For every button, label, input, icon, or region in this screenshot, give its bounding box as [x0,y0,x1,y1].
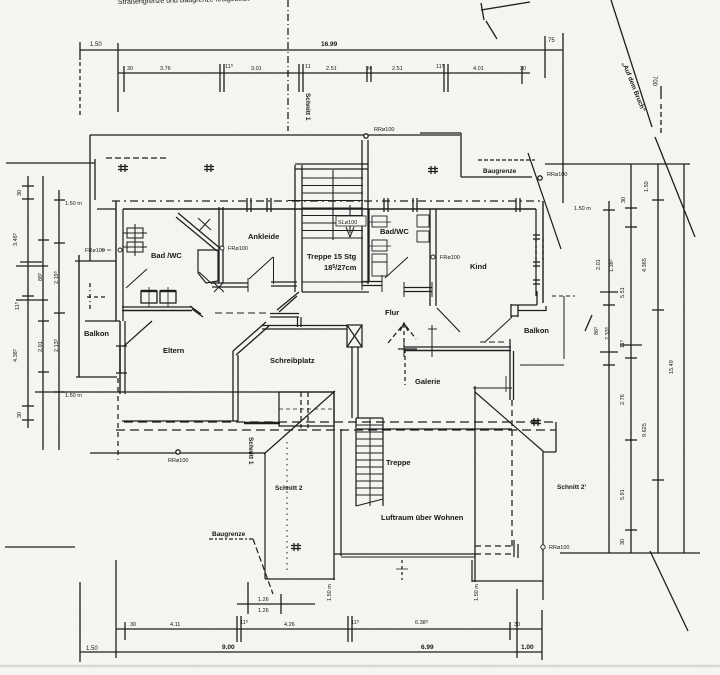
1.26 tick a [247,582,249,614]
window badwc2 [383,198,385,212]
rail3 ticks [652,199,664,201]
badwc2 right fixtures [417,215,429,227]
stair top wall [295,163,368,165]
svg-text:1.50 m: 1.50 m [327,584,333,601]
svg-text:1.26: 1.26 [258,608,269,614]
svg-text:30: 30 [514,622,520,628]
svg-text:FRø100: FRø100 [440,255,460,261]
tick 30 right [521,66,523,84]
desk rect [279,392,334,426]
svg-text:1.50 m: 1.50 m [574,206,591,212]
left wall lower outer [119,321,121,394]
FR circle ankleide [220,246,224,250]
eltern bottom window bar [244,422,280,425]
dashed segment near top left [106,157,166,159]
chain1 tick 30 [124,622,126,640]
svg-text:30: 30 [130,622,136,628]
svg-text:75: 75 [548,38,555,44]
svg-text:1.50: 1.50 [644,181,650,192]
lower stair right rail [382,418,384,506]
left horizontal stub y261 [75,260,116,262]
stair lower landing line [302,291,369,293]
ankleide bottom wall left piece [212,282,248,284]
bottom chain line 1 [116,628,542,630]
lower stair treads [356,424,383,426]
svg-text:2.51: 2.51 [392,66,403,72]
eltern door swing [124,321,152,346]
1.26 tick b [280,594,282,614]
schnitt2 dotted line [286,442,288,573]
balcony rail v2 [517,305,519,317]
stair stringer vertical [332,170,334,240]
dashed vertical right connector [555,422,557,452]
hash symbol bottom [291,543,301,551]
central wall below chimney [352,347,358,418]
left mid rail [42,176,44,450]
luftraum left wall outer [333,391,335,580]
svg-text:Treppe 15 Stg: Treppe 15 Stg [307,252,357,261]
tick pair 11.5 [219,64,221,92]
niche vertical [297,317,299,327]
svg-text:Schnitt 1: Schnitt 1 [247,437,254,465]
right rail 2 [630,164,632,553]
stair walk line with arrow [349,205,351,233]
chain1 tick pair 11.5 b [347,616,349,642]
chain1 tick pair 11.5 a [236,616,238,642]
left outer rail [27,176,29,428]
svg-text:3.01: 3.01 [251,66,262,72]
hash symbol mid [204,164,214,172]
luftraum left wall inner [340,429,342,556]
wc squares bottom [141,287,176,307]
stair right wall outer [361,140,363,284]
shower X mark b [199,219,210,231]
baugrenze solid line under text [461,176,532,178]
badwc1 right wall inner [222,207,224,283]
desk diagonal [264,391,335,454]
svg-text:Flur: Flur [385,308,399,317]
gutter circle [364,134,368,138]
svg-text:5.91: 5.91 [620,489,626,500]
svg-text:FRø100: FRø100 [85,248,105,254]
kind right wall lower segment [535,239,537,262]
svg-text:30: 30 [17,412,23,418]
flur arrow apex dashes left leg [388,326,402,343]
badwc2 bottom wall ticks [361,277,363,290]
svg-text:1.50 m: 1.50 m [474,584,480,601]
balcony rail v3 [510,304,512,317]
balcony right rail v [545,306,547,311]
niche wall horizontal upper [270,313,299,315]
dashed row left of niche [215,312,268,314]
bottom wall segment right [472,580,543,582]
stair top wall inner [295,168,368,170]
drain circle [541,545,545,549]
svg-text:9.625: 9.625 [642,423,648,437]
right wall outer [542,201,544,303]
RR100 bottom dim line [90,452,266,454]
small dim line 1.26 [237,603,315,605]
tall rail at x=118 [117,43,119,112]
svg-text:Galerie: Galerie [415,377,440,386]
svg-text:30: 30 [127,66,133,72]
corner mark line c [486,21,497,39]
svg-text:Schnitt 2’: Schnitt 2’ [557,484,586,491]
svg-text:Bad/WC: Bad/WC [380,227,409,236]
small dashes center bottom [401,560,403,580]
left balcony bottom line [76,376,117,378]
left horizontal line top [6,162,95,164]
badwc2 extra fixture [372,262,387,276]
baugrenze corner vertical [460,133,462,177]
luftraum bottom wall [334,553,475,555]
svg-text:1.50: 1.50 [86,646,98,652]
svg-text:9.00: 9.00 [222,644,235,651]
svg-text:RRø100: RRø100 [374,127,394,133]
wall badwc2-kind inner [435,209,437,306]
svg-text:RRø100: RRø100 [547,172,567,178]
lower stair left rail [355,418,357,506]
wall badwc2-kind outer [430,209,436,306]
chain1 tick 30 right [509,622,511,640]
lower stair mid stringer [369,418,371,506]
baugrenze dashes under text [209,538,253,540]
svg-text:Baugrenze: Baugrenze [212,531,246,538]
left wall inner [122,209,124,321]
svg-text:11: 11 [305,64,311,70]
baugrenze dashed line upper [478,159,535,161]
svg-text:1.26: 1.26 [258,597,269,603]
left end rail dashed extension [79,62,81,118]
svg-text:30: 30 [520,66,526,72]
stair treads [302,177,363,179]
window ankleide [246,198,248,212]
ankleide bottom wall right piece [271,281,297,283]
rail2 ticks [625,207,637,209]
RR circle right [538,176,542,180]
balcony rail v1 [536,291,538,305]
galerie top wall stub [398,348,417,350]
hash symbol right [428,166,438,174]
svg-text:Baugrenze: Baugrenze [483,168,517,175]
svg-text:185/27cm: 185/27cm [324,263,357,272]
left contour dash-dot continuation [89,283,91,310]
tick pair at dash end [513,540,515,557]
svg-text:30: 30 [17,190,23,196]
svg-text:1.50: 1.50 [90,42,102,48]
left inner rail [58,190,60,450]
right rail 1 [608,201,610,553]
svg-text:Balkon: Balkon [84,329,109,338]
700 dimension tick line [660,86,662,99]
short 75 line [545,49,563,51]
stair left wall inner [301,165,303,292]
svg-text:Bad /WC: Bad /WC [151,251,182,260]
svg-text:1.50 m: 1.50 m [65,393,82,399]
flur arrow head [400,323,408,331]
right horizontal top line [545,163,690,165]
eltern right wall vertical [232,351,234,421]
SL label box [336,216,366,226]
badwc1 bottom double wall [122,306,203,317]
hall wall to chimney [262,325,347,327]
balcony rail h2 [518,310,546,312]
1.50 contour tick right [544,451,556,453]
badwc2 fixtures left column [372,216,387,227]
svg-text:1.50 m: 1.50 m [65,201,82,207]
bottom wall segment left [265,578,335,580]
dashed line upper [124,421,556,423]
luftraum right wall [474,386,476,582]
shower X mark a [198,218,211,230]
left horizontal line bottom [5,546,75,548]
left wall top stub y209 [97,208,116,210]
kind door leaf diagonal [437,308,460,332]
street diagonal lower [650,551,688,631]
sill diagonal end [190,306,201,314]
svg-text:2.51: 2.51 [326,66,337,72]
bottom rail far left [79,582,81,662]
schnitt 1 dash-dot line [287,0,289,131]
left mid rail ticks [38,239,49,241]
svg-text:Treppe: Treppe [386,458,411,467]
eltern balcony door rail [119,346,121,373]
badwc2 left wall outer [368,209,370,282]
ankleide bottom wall tick [247,278,249,292]
corner mark line b [481,3,484,20]
desk inner dashed [279,408,334,410]
svg-text:4.26: 4.26 [284,622,295,628]
svg-text:Luftraum über Wohnen: Luftraum über Wohnen [381,513,464,522]
tick pair 24 [366,66,368,82]
flur dashed center line [403,324,405,347]
svg-text:2.76: 2.76 [620,394,626,405]
svg-text:FRø100: FRø100 [228,246,248,252]
left wall dashed below [117,378,119,460]
svg-text:Schnitt 1: Schnitt 1 [304,93,311,121]
galerie rail tick [505,376,507,392]
right rail dashes [552,295,575,297]
roof slope diagonal [475,392,544,452]
svg-text:4.01: 4.01 [473,66,484,72]
galerie rail line [473,387,512,389]
top line to corner [420,132,461,134]
bottom rail mid [516,589,518,658]
svg-text:SLø100: SLø100 [338,220,357,226]
bottom chain line 2 [80,651,542,653]
RR circle bottom [176,450,180,454]
svg-text:RRø100: RRø100 [168,458,188,464]
eltern right diagonal wall [233,322,266,351]
right rail x=545 [544,36,546,78]
right rail x=563 long [562,33,564,203]
FR circle mid [431,255,435,259]
wall X mark a [214,283,224,292]
svg-text:1.00: 1.00 [521,644,534,651]
sub chain line y=73 [118,72,530,74]
corridor diagonal wall down-left [277,292,299,310]
left balcony outer rail [78,255,80,377]
tray to wall diagonal [199,272,212,284]
badwc2 door swing [385,257,408,278]
svg-text:6.99: 6.99 [421,644,434,651]
svg-text:5.51: 5.51 [620,287,626,298]
bottom rail left [115,560,117,658]
balcony rail h3 [511,315,518,317]
tick pair 11.5 right [443,64,445,92]
svg-text:30: 30 [620,539,626,545]
kind bottom wall double [404,308,512,357]
street diagonal upper [611,0,652,127]
badwc2 bottom wall right [404,287,432,289]
door rail caps [116,345,127,347]
bottom rail right [541,610,543,660]
left dash row [87,296,106,298]
schnitt2 dashed verticals [300,392,302,428]
right rail 4 [683,164,685,553]
top chain main line 16.99 [80,49,545,51]
badwc2 bottom right ticks [403,282,405,297]
left end rail of top chain [79,42,81,60]
badwc1 washbasin upper [123,224,147,256]
lower stair bottom diagonal [356,499,383,506]
fixture ticks [368,221,391,223]
left inner rail ticks [54,199,65,201]
right horizontal bottom line [560,552,700,554]
stair left wall outer [294,165,296,292]
left outer contour vertical [89,135,91,261]
faint scanner smudge bottom [0,665,720,668]
svg-text:Kind: Kind [470,262,487,271]
right rail 3 [657,164,659,553]
svg-text:Balkon: Balkon [524,326,549,335]
eltern bottom wall solid [122,322,280,423]
svg-text:Eltern: Eltern [163,346,185,355]
baugrenze diagonal [528,153,561,249]
basin ticks [123,232,147,234]
svg-text:RRø100: RRø100 [549,545,569,551]
corner mark line a [481,2,530,10]
window dashes on kind bottom wall [480,341,506,343]
dark tops [141,290,157,292]
wall X mark b [214,283,223,292]
dashed line lower [116,429,556,431]
shower screen diagonal outer [178,213,221,249]
svg-text:16.99: 16.99 [321,41,338,48]
right drain vertical [542,452,544,600]
ankleide door leaf vertical [273,257,275,284]
svg-text:3.76: 3.76 [160,66,171,72]
rail1 ticks [603,209,615,211]
svg-text:30: 30 [621,197,627,203]
badwc1 right wall outer [218,207,220,283]
FR circle left [118,248,122,252]
kind right wall window ticks [533,235,543,284]
svg-text:Schnitt 2: Schnitt 2 [275,485,303,492]
top wall dashed outer edge [112,200,545,202]
FR tick left [101,249,112,251]
window kind right [515,198,517,212]
gutter line RR100 top [90,134,460,136]
svg-text:4.11: 4.11 [170,622,180,628]
left outer rail ticks [22,185,34,187]
top wall inner solid edge [123,208,536,210]
svg-text:2.01: 2.01 [38,341,44,352]
hash symbol left [118,164,128,172]
small vertical at x95 [94,159,96,200]
shower tray polygon [198,250,218,283]
vertical wall x265 [264,454,266,579]
svg-text:2.01: 2.01 [596,259,602,270]
flur arrow right leg [406,326,416,339]
luftraum top line [357,428,512,430]
stair right wall inner [367,140,369,284]
balcony bottom line [520,364,564,366]
left wall outer [115,201,117,321]
svg-text:Schreibplatz: Schreibplatz [270,356,315,365]
left wall lower inner [124,321,126,394]
svg-text:15.49: 15.49 [669,360,675,374]
left balcony top line [85,320,120,322]
galerie dashed boundary [404,349,406,385]
flur bottom wall ticks [403,342,405,357]
bottom right vertical [471,560,473,582]
badwc2 bottom wall left [362,281,382,283]
hash symbol galerie [531,418,541,426]
tick pair 11 (schnitt) [298,64,300,92]
kind balcony door swing [485,317,512,342]
badwc1 door swing [126,269,147,288]
galerie right wall upper [509,339,511,400]
dashed bottom of luftraum zone [475,545,512,547]
svg-text:Ankleide: Ankleide [248,232,279,241]
lower stair top [356,417,383,419]
shower screen diagonal inner [176,217,217,251]
dashed wall continuation under balcony [475,553,512,555]
tick 30 left [123,66,125,92]
balcony outer right wall [563,296,565,359]
1.50m contour line left [35,391,334,393]
svg-text:700: 700 [651,76,657,87]
ankleide door swing [249,257,273,279]
eltern wardrobe [140,290,142,292]
dashed vertical right of luftraum [511,400,513,546]
balcony rail h1 [511,304,537,306]
svg-text:24: 24 [366,66,372,72]
right wall inner [535,209,537,296]
svg-text:4.365: 4.365 [642,258,648,272]
baugrenze diagonal dashed [253,539,273,594]
street diagonal mid [655,137,695,237]
small slash near right rail [585,315,592,331]
stair bottom line [302,281,369,283]
